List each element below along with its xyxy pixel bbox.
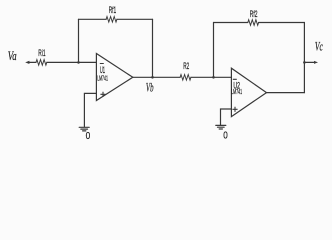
wire feedback2 right vertical	[303, 23, 305, 93]
wire U2 output	[267, 92, 305, 94]
wire Ri1 to U1 inverting input	[47, 61, 97, 63]
svg-text:U1: U1	[100, 65, 105, 76]
wire U1 noninverting input	[84, 93, 96, 126]
op-amp U1 plus sign	[101, 93, 105, 95]
svg-text:Va: Va	[8, 48, 17, 63]
resistor Ri1	[36, 60, 47, 66]
wire U1 output to R2	[133, 76, 180, 78]
op-amp U2 plus sign	[233, 108, 237, 110]
op-amp U2 minus sign	[233, 78, 236, 80]
wire feedback1 top left	[79, 18, 107, 20]
svg-text:LM741: LM741	[97, 76, 108, 83]
svg-text:0: 0	[86, 131, 91, 142]
node Vc terminal arrow	[314, 61, 318, 64]
wire U2 noninverting input	[221, 109, 232, 125]
wire Vc stub	[304, 61, 314, 63]
resistor Rf2	[248, 20, 259, 26]
svg-text:Vb: Vb	[146, 80, 154, 95]
junction node dot Vb	[151, 76, 154, 79]
svg-text:Vc: Vc	[315, 39, 323, 54]
svg-text:0: 0	[223, 130, 228, 141]
op-amp U1 triangle	[96, 54, 132, 101]
svg-text:Rf1: Rf1	[109, 5, 117, 15]
junction node dot feedback2/input	[212, 76, 215, 79]
resistor R2	[180, 75, 191, 81]
svg-text:Ri1: Ri1	[38, 48, 45, 58]
resistor Rf1	[106, 17, 117, 23]
wire feedback2 top right	[259, 22, 305, 24]
op-amp U2 triangle	[231, 68, 266, 116]
junction node dot Vc	[303, 61, 306, 64]
ground gnd1	[79, 126, 89, 128]
wire feedback1 right vertical	[152, 19, 154, 77]
wire R2 to U2 inverting input	[191, 76, 232, 78]
node Va terminal arrow	[25, 61, 29, 64]
svg-text:R2: R2	[183, 61, 189, 71]
junction node dot feedback1/input	[77, 61, 80, 64]
ground gnd2	[216, 124, 226, 126]
wire feedback2 left vertical	[213, 23, 215, 78]
op-amp U1 minus sign	[100, 63, 103, 65]
wire feedback2 top left	[214, 22, 248, 24]
wire Va to Ri1	[29, 61, 36, 63]
svg-text:LM741: LM741	[231, 89, 242, 96]
wire feedback1 left vertical	[78, 19, 80, 62]
svg-text:Rf2: Rf2	[250, 9, 258, 19]
wire feedback1 top right	[117, 18, 153, 20]
